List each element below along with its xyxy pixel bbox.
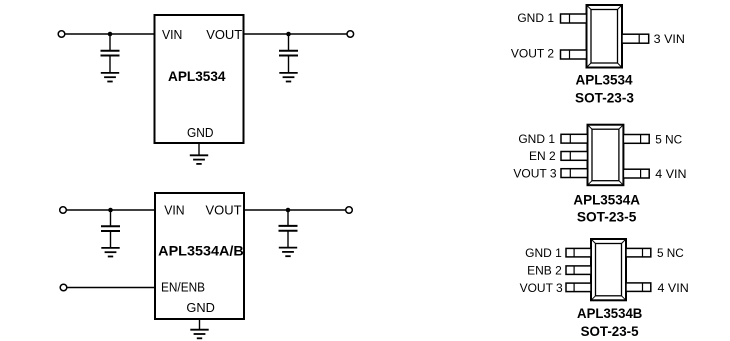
svg-text:ENB 2: ENB 2 — [527, 264, 562, 278]
svg-text:APL3534: APL3534 — [168, 68, 226, 84]
ground C1 — [101, 73, 119, 82]
capacitor C1 — [101, 51, 120, 56]
svg-text:3 VIN: 3 VIN — [654, 32, 685, 46]
svg-text:APL3534B: APL3534B — [577, 305, 642, 321]
wire C3 bottom stem — [110, 232, 112, 248]
pin 4 (P3 VIN) — [626, 283, 651, 292]
wire U1 GND stem — [198, 143, 200, 155]
package P3 SOT-23-5 body — [591, 239, 626, 300]
svg-text:VOUT 3: VOUT 3 — [520, 281, 563, 295]
svg-text:VOUT: VOUT — [206, 203, 242, 218]
pin 2 (P2 EN) — [561, 152, 588, 161]
node junction at C2 — [286, 32, 291, 37]
pin 1 (P2 GND) — [561, 134, 588, 143]
svg-text:4 VIN: 4 VIN — [655, 167, 686, 181]
pin 3 (P1 VIN) — [622, 34, 649, 43]
svg-text:GND 1: GND 1 — [525, 246, 562, 260]
node junction at C3 — [108, 208, 113, 213]
wire VIN input (top circuit) — [65, 33, 154, 35]
capacitor C2 — [279, 51, 298, 56]
wire C2 top stem — [288, 34, 290, 50]
ground U1 — [190, 155, 208, 164]
svg-text:VIN: VIN — [162, 27, 182, 42]
svg-text:VOUT 3: VOUT 3 — [513, 167, 556, 181]
ground U2 — [190, 330, 208, 339]
capacitor C4 — [279, 226, 298, 231]
pin 5 (P2 NC) — [623, 135, 649, 144]
svg-text:SOT-23-5: SOT-23-5 — [581, 323, 639, 339]
terminal IN (top circuit) — [58, 31, 65, 38]
wire C1 top stem — [109, 34, 111, 50]
svg-text:EN/ENB: EN/ENB — [161, 279, 205, 294]
svg-text:APL3534A: APL3534A — [573, 192, 640, 208]
wire C1 bottom stem — [109, 56, 111, 72]
terminal IN (bottom circuit) — [60, 207, 67, 214]
svg-text:GND 1: GND 1 — [517, 11, 554, 25]
svg-text:5 NC: 5 NC — [657, 246, 684, 260]
wire EN/ENB input — [67, 287, 155, 289]
pin 1 (P3 GND) — [566, 248, 591, 257]
capacitor C3 — [101, 226, 120, 231]
op-amp U1 APL3534 box — [155, 15, 244, 143]
svg-text:GND: GND — [186, 300, 215, 315]
svg-text:APL3534: APL3534 — [575, 72, 632, 88]
pin 4 (P2 VIN) — [623, 169, 649, 178]
wire VOUT output (top circuit) — [244, 33, 348, 35]
pin 3 (P2 VOUT) — [561, 169, 588, 178]
package P1 SOT-23-3 body — [587, 5, 623, 68]
op-amp U2 APL3534A/B box — [155, 193, 244, 319]
svg-text:SOT-23-3: SOT-23-3 — [575, 90, 634, 106]
pin 5 (P3 NC) — [626, 248, 651, 257]
ground C4 — [279, 248, 297, 257]
node junction at C4 — [286, 208, 291, 213]
svg-text:VOUT 2: VOUT 2 — [511, 47, 554, 61]
package P2 SOT-23-5 body — [588, 125, 624, 186]
svg-text:VOUT: VOUT — [206, 27, 242, 42]
svg-text:SOT-23-5: SOT-23-5 — [577, 209, 637, 225]
svg-text:VIN: VIN — [164, 203, 184, 218]
wire VOUT output (bottom circuit) — [244, 209, 346, 211]
pin 2 (P3 ENB) — [566, 266, 591, 275]
wire VIN input (bottom circuit) — [67, 209, 155, 211]
svg-text:GND: GND — [187, 125, 214, 140]
terminal OUT (bottom circuit) — [346, 207, 353, 214]
svg-text:4 VIN: 4 VIN — [658, 281, 689, 295]
pin 1 (P1 GND) — [561, 14, 587, 23]
ground C2 — [279, 73, 297, 82]
svg-text:EN 2: EN 2 — [529, 149, 556, 163]
wire C4 bottom stem — [287, 231, 289, 247]
ground C3 — [101, 248, 119, 257]
terminal OUT (top circuit) — [347, 31, 354, 38]
wire C3 top stem — [110, 210, 112, 226]
wire C4 top stem — [287, 210, 289, 225]
pin 2 (P1 VOUT) — [561, 50, 587, 59]
svg-text:5 NC: 5 NC — [655, 132, 682, 146]
pin 3 (P3 VOUT) — [566, 283, 591, 292]
svg-text:GND 1: GND 1 — [518, 132, 555, 146]
node junction at C1 — [108, 32, 113, 37]
wire U2 GND stem — [199, 319, 201, 330]
wire C2 bottom stem — [288, 56, 290, 72]
svg-text:APL3534A/B: APL3534A/B — [158, 243, 244, 259]
terminal EN (bottom circuit) — [60, 284, 67, 291]
